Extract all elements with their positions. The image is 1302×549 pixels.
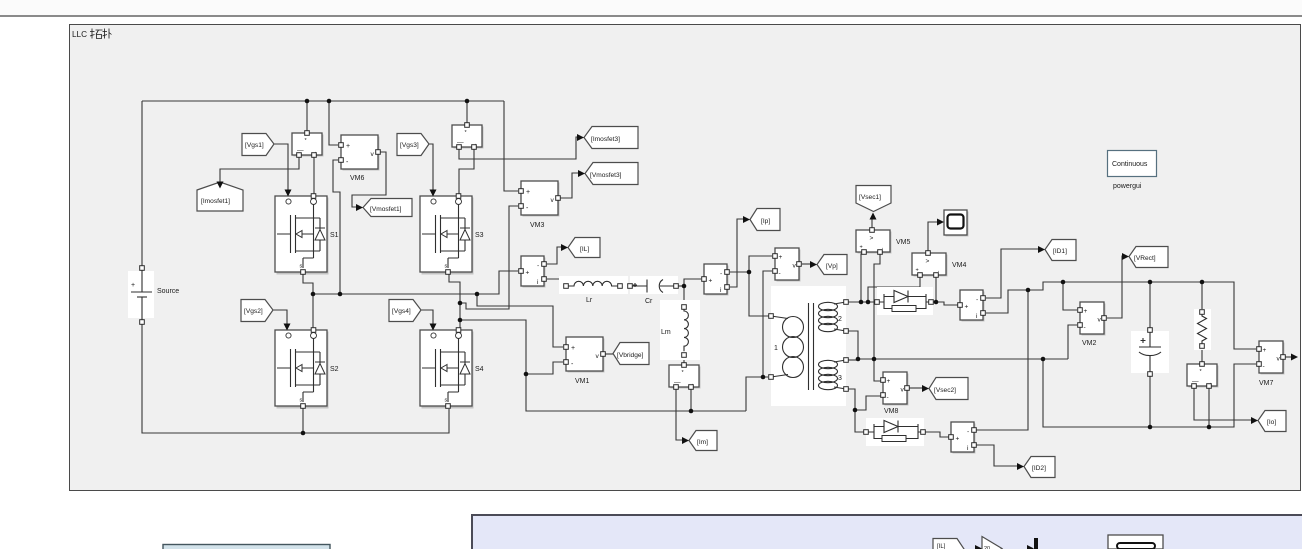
wire secondary 3 top to center tap: [848, 359, 858, 361]
goto tag IL: [568, 238, 600, 258]
bottom-left subsystem box (clipped): [163, 545, 330, 549]
mosfet S3: [420, 194, 474, 275]
current probe box above S3: [452, 123, 484, 150]
mosfet S1: [275, 194, 329, 275]
svg-text:[Im]: [Im]: [697, 439, 708, 446]
diode D2 with snubber: [864, 418, 926, 446]
wire VM7 v output: [1285, 356, 1291, 358]
arrow into ID1 tag: [1038, 246, 1045, 253]
svg-text:powergui: powergui: [1113, 183, 1142, 190]
arrow into Vp tag: [810, 261, 817, 268]
from tag Vgs2: [241, 300, 273, 322]
svg-text:2: 2: [838, 316, 842, 323]
wire bus to probe box above S1: [306, 101, 308, 131]
wire Lm to Im probe: [683, 355, 685, 363]
current measurement IL: [519, 256, 547, 288]
wire node A bus to IL meter plus: [313, 271, 518, 294]
svg-text:[Vgs1]: [Vgs1]: [245, 142, 264, 149]
wire node C up to Ip meter plus: [684, 279, 701, 286]
svg-text:[Vgs4]: [Vgs4]: [392, 308, 411, 315]
svg-text:S2: S2: [330, 366, 339, 373]
goto tag Vp: [817, 255, 847, 275]
arrow into scope: [937, 219, 944, 226]
wire primary node up to VM9 plus: [749, 256, 772, 272]
wire center tap to VM8 plus: [874, 359, 881, 381]
goto tag Imosfet3: [584, 127, 638, 149]
svg-text:[IL]: [IL]: [937, 544, 946, 549]
arrow into gain: [975, 545, 982, 549]
arrow into Io tag: [1251, 417, 1258, 424]
svg-text:[Vmosfet1]: [Vmosfet1]: [370, 206, 402, 213]
wire resistor to Io probe: [1201, 346, 1203, 364]
scope block (clipped): [1108, 535, 1163, 549]
svg-text:3: 3: [838, 375, 842, 382]
wire VM5 right down to center tap: [874, 252, 880, 359]
canvas title LLC topology: [72, 29, 112, 40]
svg-text:Continuous: Continuous: [1112, 161, 1148, 168]
voltage measurement VM6: [339, 135, 381, 171]
svg-text:S3: S3: [475, 232, 484, 239]
wire VM4 right down to diode 1 cathode: [935, 275, 937, 302]
wire rail up to transformer primary bottom: [746, 377, 768, 411]
wire VM9 minus to primary bottom: [763, 271, 772, 377]
svg-text:VM1: VM1: [575, 378, 590, 385]
arrow into Vsec1 tag: [870, 213, 877, 220]
arrow VM7 output: [1291, 354, 1298, 361]
wire Vgs2 to S2 gate: [272, 310, 287, 324]
arrow into Ip tag: [743, 216, 750, 223]
wire ID1 meter signal to ID1 tag: [986, 249, 1039, 298]
wire Vgs1 to S1 gate: [274, 144, 288, 190]
svg-text:VM5: VM5: [896, 239, 911, 246]
three-winding transformer: [769, 286, 849, 406]
wire 2-top node up to VM5 left: [861, 252, 864, 302]
wire bus to load resistor: [1201, 282, 1203, 312]
wire probe box to S1 drain: [313, 155, 315, 194]
wire 3-bottom node to VM8 minus: [855, 396, 881, 410]
wire ID2 meter signal to ID2 tag: [976, 445, 1018, 466]
svg-text:[Io]: [Io]: [1267, 419, 1276, 426]
wire VM5 top to Vsec1 tag: [871, 219, 873, 230]
svg-text:VM2: VM2: [1082, 340, 1097, 347]
wire bus to probe box above S3: [466, 101, 468, 123]
wire secondary 3 bottom to diode 2: [848, 389, 867, 432]
wire Lr to Cr stub: [620, 285, 630, 287]
wire Ip meter out to primary node: [730, 271, 749, 273]
wire bus corner down to VM3 plus: [504, 101, 518, 191]
svg-text:VM8: VM8: [884, 408, 899, 415]
from tag Vgs1: [242, 134, 274, 156]
from tag Vgs4: [389, 300, 421, 322]
voltage measurement VM9: [773, 248, 802, 282]
wire primary node down to primary top: [749, 272, 769, 316]
capacitor Cr: [628, 276, 679, 305]
inductor Lm: [660, 300, 700, 360]
scope block: [944, 210, 969, 237]
wire source positive to bus: [141, 101, 143, 268]
goto tag VRect: [1129, 247, 1168, 268]
svg-text:VM7: VM7: [1259, 380, 1274, 387]
arrow into Vsec2 tag: [922, 385, 929, 392]
arrow into Vmosfet1 tag: [356, 204, 363, 211]
svg-text:VM6: VM6: [350, 175, 365, 182]
wire Imosfet3 signal to goto tag: [459, 137, 578, 159]
wire source negative to bottom bus: [142, 322, 449, 433]
wire VM4 left down to diode 1 anode: [868, 275, 920, 302]
DC voltage source Source: [128, 266, 179, 325]
output capacitor: [1131, 328, 1169, 377]
goto tag Vbridge: [613, 343, 649, 365]
svg-text:+: +: [131, 282, 135, 289]
wire secondary 2 top to diode 1: [848, 301, 878, 303]
wire node C down to Lm: [683, 286, 685, 307]
goto tag Ip: [750, 209, 780, 231]
wire VM1 v to Vbridge tag: [605, 353, 613, 355]
wire Io probe signal to Io tag: [1194, 386, 1251, 420]
voltage measurement VM8: [881, 372, 910, 406]
wire probe box to S3 drain: [459, 147, 474, 194]
arrow into VRect tag: [1122, 253, 1129, 260]
arrow into Vmosfet3 tag: [578, 170, 585, 177]
voltage measurement VM1: [564, 337, 606, 373]
current probe box above S1: [292, 131, 324, 158]
inductor Lr: [559, 276, 628, 304]
gain block 20 (clipped): [982, 537, 1002, 549]
current measurement ID1: [958, 290, 986, 322]
load resistor: [1194, 309, 1211, 350]
series probe Im: [669, 363, 701, 390]
svg-text:[Vp]: [Vp]: [826, 263, 838, 270]
svg-text:LLC: LLC: [72, 30, 87, 39]
voltage measurement VM5 (rotated): [856, 228, 892, 255]
wire Im probe signal to Im tag: [676, 387, 682, 440]
voltage measurement VM3: [519, 181, 561, 217]
wire Im probe return to rail: [690, 387, 692, 411]
wire diode 2 to ID2 meter: [922, 432, 949, 437]
mosfet S4: [420, 328, 474, 409]
powergui block: [1108, 151, 1157, 191]
wire node A down to S2 drain: [312, 294, 314, 330]
wire Cr to node C: [676, 285, 684, 287]
wire S2 source to bottom bus: [302, 407, 304, 433]
svg-text:[Vgs3]: [Vgs3]: [400, 142, 419, 149]
svg-text:[Vbridge]: [Vbridge]: [617, 352, 644, 359]
goto tag Vsec2: [929, 378, 968, 400]
svg-text:[Imosfet1]: [Imosfet1]: [201, 198, 230, 205]
wire capacitor to return rail: [1149, 374, 1151, 427]
top toolbar separator line: [0, 0, 1302, 15]
wire center tap down to output return rail: [1043, 359, 1256, 427]
current measurement ID2: [949, 422, 977, 454]
svg-text:VM3: VM3: [530, 222, 545, 229]
svg-text:[ID2]: [ID2]: [1032, 465, 1046, 472]
arrow into S2 gate: [284, 324, 291, 331]
svg-text:Source: Source: [157, 288, 179, 295]
arrow into Imosfet3 tag: [577, 134, 584, 141]
wire IL meter out to Lr: [547, 279, 566, 286]
svg-text:VM4: VM4: [952, 262, 967, 269]
wire node A to VM1 plus: [477, 294, 563, 347]
series probe Io: [1187, 362, 1219, 389]
svg-text:[ID1]: [ID1]: [1053, 248, 1067, 255]
goto tag Io: [1258, 411, 1286, 432]
wire Imosfet1 signal to goto tag: [220, 155, 299, 182]
wire VM8 v to Vsec2 tag: [909, 387, 923, 389]
wire Io probe return to rail: [1208, 386, 1210, 427]
goto tag Imosfet1 (points up): [197, 182, 243, 211]
wire diode 1 to ID1 meter plus: [930, 302, 958, 305]
wire VM2 minus to center tap: [1068, 325, 1077, 359]
goto tag Im: [689, 431, 717, 451]
goto tag ID2: [1024, 457, 1055, 478]
mux stub (clipped): [1027, 545, 1034, 549]
bottom lavender subsystem panel: [472, 515, 1302, 549]
wire Vgs3 to S3 gate: [428, 144, 433, 190]
arrow into S1 gate: [285, 190, 292, 197]
wire VM6 minus down to midpoint bus: [333, 160, 340, 294]
wire VM3 v output to Vmosfet3 tag: [558, 173, 579, 198]
svg-text:S1: S1: [330, 232, 339, 239]
svg-text:[VRect]: [VRect]: [1134, 255, 1156, 262]
voltage measurement VM7: [1257, 341, 1286, 375]
wire Ip meter signal up to Ip tag: [730, 219, 744, 287]
svg-text:[IL]: [IL]: [580, 246, 589, 253]
goto tag ID1: [1045, 240, 1076, 261]
svg-text:Lm: Lm: [661, 329, 671, 336]
wire VM9 v to Vp tag: [802, 263, 811, 265]
svg-text:Lr: Lr: [586, 297, 593, 304]
from tag IL (clipped, inside bottom panel): [933, 539, 964, 549]
wire S3 source to node B: [449, 272, 460, 330]
voltage measurement VM4 (rotated): [912, 251, 948, 278]
wire VM3 minus to node B: [460, 206, 518, 309]
wire secondary 2 bottom to center tap: [848, 331, 858, 359]
wire ID2 meter return to rect node: [976, 290, 1028, 430]
svg-text:[Vmosfet3]: [Vmosfet3]: [590, 172, 622, 179]
wire VM6 v output to Vmosfet1 tag: [352, 152, 386, 207]
svg-text:[Vsec1]: [Vsec1]: [859, 194, 881, 201]
arrow into ID2 tag: [1017, 463, 1024, 470]
wire Vgs4 to S4 gate: [421, 310, 433, 324]
arrow into IL tag: [561, 244, 568, 251]
goto tag Vmosfet3: [585, 163, 638, 185]
wire bus to VM2 plus: [1063, 282, 1077, 310]
arrow into S3 gate: [430, 190, 437, 197]
svg-text:Cr: Cr: [645, 298, 653, 305]
arrow into Im tag: [682, 437, 689, 444]
wire center tap line: [858, 358, 1068, 360]
wire node B to VM1 minus: [526, 362, 563, 374]
svg-text:[Vsec2]: [Vsec2]: [934, 387, 956, 394]
voltage measurement VM2: [1078, 302, 1107, 336]
wire bus to VM6 plus: [329, 101, 338, 145]
current measurement Ip: [702, 264, 730, 296]
from tag Vgs3: [397, 134, 429, 156]
goto tag Vsec1 (points down): [856, 186, 891, 212]
wire VM2 v to VRect tag: [1107, 256, 1123, 318]
svg-text:[Vgs2]: [Vgs2]: [244, 308, 263, 315]
mosfet S2: [275, 328, 329, 409]
wire node B to return rail: [460, 320, 746, 411]
goto tag Vmosfet1 (points left): [363, 199, 412, 217]
arrow into S4 gate: [430, 324, 437, 331]
svg-text:S4: S4: [475, 366, 484, 373]
wire IL meter signal to IL tag: [547, 247, 562, 264]
arrow into Imosfet1 tag: [217, 182, 224, 189]
wire ID1 meter out to DC plus bus: [986, 282, 1256, 349]
wire VM4 top to scope: [928, 222, 938, 253]
wire S1 source to node A: [303, 272, 313, 294]
diode D1 with snubber: [875, 287, 934, 315]
svg-text:[Imosfet3]: [Imosfet3]: [591, 136, 620, 143]
wire top DC bus: [142, 100, 504, 102]
svg-text:[Ip]: [Ip]: [761, 218, 770, 225]
wire bus to output capacitor: [1149, 282, 1151, 330]
svg-text:1: 1: [774, 345, 778, 352]
